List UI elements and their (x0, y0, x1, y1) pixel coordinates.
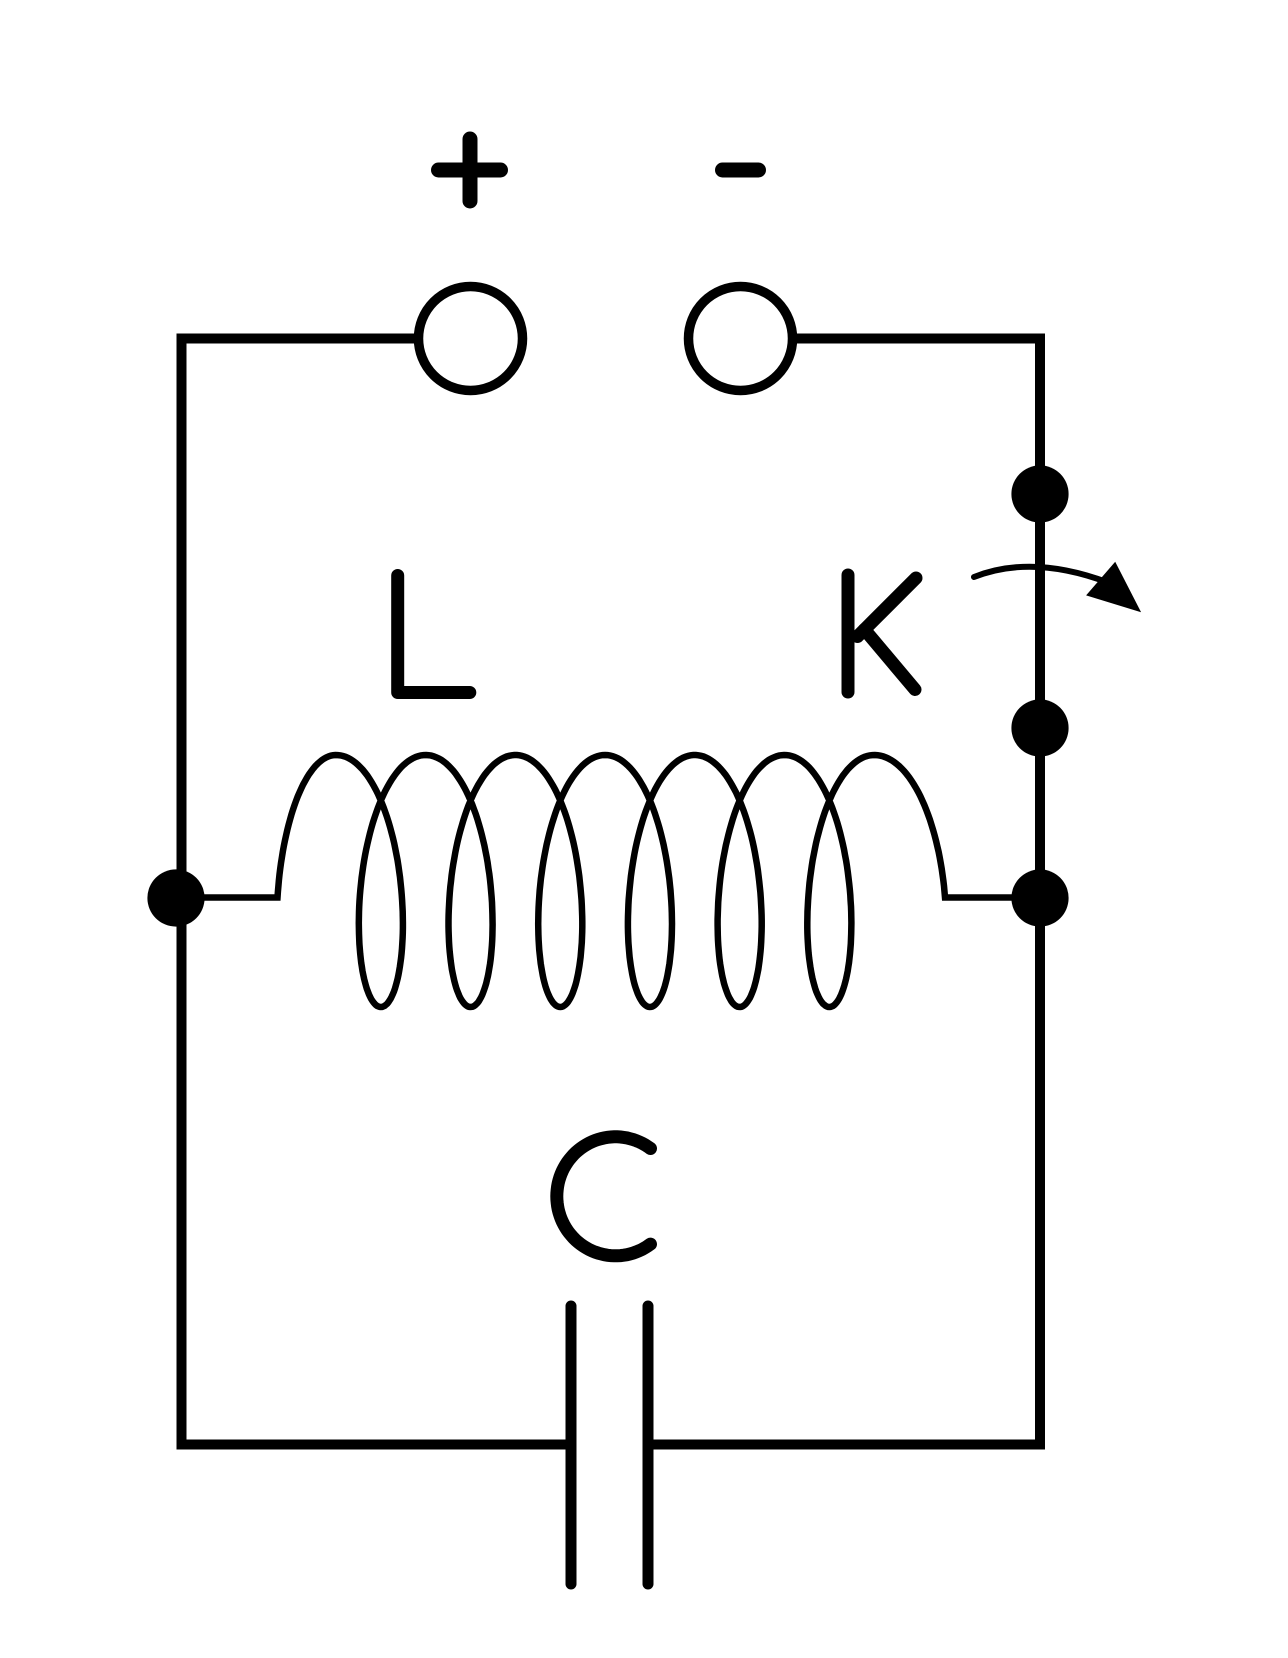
wire: top-left horizontal (left corner to + terminal) (177, 334, 415, 344)
wire: left vertical side (177, 334, 187, 1450)
wire: right vertical lower segment (switch bottom node to bottom corner) (1035, 728, 1045, 1450)
label - (negative) (723, 163, 759, 178)
junction dot: inductor left node (147, 869, 204, 926)
switch arrow head (1086, 562, 1141, 613)
label + (positive) (439, 139, 501, 201)
wire: bottom-right horizontal (capacitor right plate to right corner) (653, 1440, 1045, 1450)
junction dot: switch bottom node (1011, 699, 1068, 756)
switch K blade (closed, between its two nodes) (1035, 494, 1045, 728)
label C (557, 1137, 651, 1256)
junction dot: switch top node (1011, 465, 1068, 522)
switch rotation arrow arc (974, 567, 1108, 583)
label K (848, 575, 916, 692)
junction dot: inductor right node (1011, 869, 1068, 926)
battery positive terminal circle (419, 287, 523, 391)
battery negative terminal circle (689, 287, 793, 391)
wire: right vertical upper segment (corner to switch top node) (1035, 334, 1045, 495)
wire: bottom-left horizontal (left corner to capacitor left plate) (177, 1440, 567, 1450)
capacitor C left plate (566, 1306, 577, 1584)
inductor L coil winding (176, 755, 1040, 1007)
label L (398, 576, 470, 693)
wire: top-right horizontal (- terminal to right corner) (797, 334, 1045, 344)
capacitor C right plate (643, 1306, 654, 1584)
